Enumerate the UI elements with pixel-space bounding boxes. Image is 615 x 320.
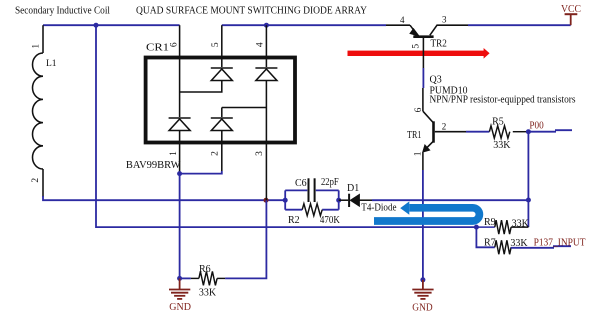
wire: coil pin2 to C6/R2 node: [43, 196, 285, 200]
svg-text:5: 5: [211, 42, 221, 47]
CR1 pin 5 stub (top): [221, 25, 223, 57]
svg-text:6: 6: [170, 42, 180, 47]
svg-text:R9: R9: [484, 217, 496, 228]
svg-text:CR1: CR1: [146, 43, 169, 54]
blue arrow annotation (U-turn): [374, 208, 479, 221]
node junction dot pin1/pin2: [177, 171, 182, 176]
CR1 internal: connector from top-right anode column to bottom-middle cathode: [222, 107, 267, 109]
svg-text:33K: 33K: [512, 218, 530, 229]
wire: D1 anode to P00 column: [372, 199, 528, 201]
wire: TR2 base to TR1 collector: [422, 68, 424, 88]
wire: CR1 pin1 column down to ground node: [179, 174, 181, 279]
power symbol VCC: [565, 14, 578, 25]
TR1 base lead: [435, 131, 466, 133]
capacitor C6 / resistor R2 parallel network nodes: [283, 198, 288, 203]
TR1 collector stub: [422, 88, 424, 111]
svg-text:R7: R7: [484, 237, 496, 248]
svg-text:Secondary Inductive Coil: Secondary Inductive Coil: [15, 6, 110, 17]
resistor R5: [489, 126, 528, 139]
svg-text:NPN/PNP resistor-equipped tran: NPN/PNP resistor-equipped transistors: [430, 95, 576, 106]
TR1 bar: [432, 121, 435, 142]
CR1 internal: pin6 vertical to diode D-A cathode, branch to D-B anode: [180, 58, 222, 118]
transistor TR2 (PNP, Q3a): [386, 25, 468, 68]
svg-text:6: 6: [414, 107, 424, 112]
resistor R9: [476, 220, 528, 234]
wire: R2 branch rails: [285, 209, 339, 211]
node junction dot D1 wire / P00 column: [526, 198, 531, 203]
svg-text:5: 5: [411, 44, 421, 49]
wire: cap branch rails: [285, 189, 339, 191]
node junction dot P00: [526, 129, 531, 134]
svg-text:D1: D1: [347, 183, 359, 194]
capacitor C6 plates: [309, 178, 315, 202]
svg-text:1: 1: [169, 151, 179, 156]
CR1 pin 6 stub (top): [179, 25, 181, 57]
svg-text:L1: L1: [46, 59, 57, 69]
svg-text:R6: R6: [199, 264, 211, 275]
svg-text:33K: 33K: [199, 288, 217, 299]
CR1 internal diode top-middle (anode to pin6 branch, cathode to pin5): [211, 58, 233, 81]
node junction dot R9/R7 tap: [474, 225, 479, 230]
node junction dot at CR1 pin4: [264, 23, 269, 28]
CR1 pin 4 stub (top): [265, 25, 267, 57]
svg-text:GND: GND: [169, 302, 191, 313]
svg-text:BAV99BRW: BAV99BRW: [126, 160, 181, 171]
diode array CR1 package box: [146, 58, 295, 143]
CR1 pin 2 stub (bottom): [221, 143, 223, 172]
wire: TR1 base to R5: [466, 131, 489, 133]
CR1 pin 1 stub (bottom): [179, 143, 181, 174]
svg-text:T4-Diode: T4-Diode: [361, 202, 397, 213]
resistor R2 zigzag: [302, 204, 322, 216]
TR2 base stub: [422, 38, 424, 68]
svg-text:Q3: Q3: [430, 74, 442, 85]
svg-text:3: 3: [255, 151, 265, 156]
ground symbol (middle): [412, 280, 433, 299]
svg-text:QUAD SURFACE MOUNT SWITCHING D: QUAD SURFACE MOUNT SWITCHING DIODE ARRAY: [136, 6, 367, 17]
transistor TR1 (NPN, Q3b): [423, 88, 467, 170]
svg-text:TR2: TR2: [431, 39, 447, 50]
svg-text:1: 1: [414, 151, 424, 156]
wire: network left vertical: [284, 190, 286, 209]
wire: R7 to P137_INPUT net: [511, 246, 571, 248]
svg-text:VCC: VCC: [561, 4, 581, 15]
svg-text:P00: P00: [529, 121, 543, 132]
svg-text:GND: GND: [412, 302, 433, 313]
svg-text:P137_INPUT: P137_INPUT: [534, 237, 586, 248]
svg-text:R5: R5: [492, 116, 504, 127]
wire: pin3 column down to R6: [225, 200, 266, 278]
wire: TR2 collector to VCC: [468, 24, 571, 26]
wire: P00 net to right: [528, 130, 572, 132]
node junction dot on top-left wire: [94, 23, 99, 28]
diode D1: [339, 194, 372, 207]
wire: tap down to R7: [476, 227, 494, 247]
node junction dot at left ground: [177, 276, 182, 281]
wire: CR1 pin2 to pin1 column: [180, 171, 222, 174]
ground symbol (left): [169, 278, 190, 299]
TR1 emitter diagonal with arrow: [425, 142, 434, 151]
CR1 pin 3 stub (bottom): [265, 143, 267, 201]
wire: TR1 emitter down to ground: [422, 170, 424, 280]
wire top-right: CR1 pin5 / pin4 to TR2 emitter: [222, 24, 386, 26]
TR2 pin 4 emitter lead: [386, 24, 410, 26]
TR1 emitter stub: [422, 152, 424, 170]
CR1 internal diode top-right (cathode to pin4): [255, 58, 277, 143]
svg-text:2: 2: [211, 151, 221, 156]
resistor R6: [180, 277, 191, 279]
svg-text:1: 1: [32, 44, 42, 49]
svg-text:2: 2: [442, 122, 447, 132]
resistor R7: [495, 240, 511, 254]
CR1 internal diode bottom-left (cathode to pin6, anode to pin1): [169, 118, 191, 143]
wire top-left: coil pin1 to CR1 pin6: [43, 24, 180, 26]
CR1 internal diode bottom-middle (cathode to connector, anode to pin2): [211, 108, 233, 143]
wire: left vertical from top junction down and long horizontal to R9: [96, 25, 476, 227]
red arrow annotation: [348, 48, 490, 59]
node junction dot at middle ground: [420, 277, 425, 282]
svg-text:R2: R2: [288, 215, 300, 226]
TR2 bar: [413, 35, 433, 38]
TR2 pin 3 collector lead: [430, 25, 468, 35]
svg-text:4: 4: [400, 15, 405, 25]
svg-text:4: 4: [255, 42, 265, 47]
wire: P00 column down to R9: [527, 132, 529, 227]
svg-text:2: 2: [31, 178, 41, 183]
svg-text:33K: 33K: [493, 140, 511, 151]
wire: network right vertical: [338, 190, 340, 209]
svg-text:TR1: TR1: [407, 130, 422, 141]
node junction dot (red) at pin3 column on coil wire: [264, 198, 269, 203]
svg-text:470K: 470K: [320, 215, 341, 226]
svg-text:22pF: 22pF: [321, 177, 339, 188]
svg-text:C6: C6: [295, 178, 307, 189]
inductor L1: [33, 25, 44, 197]
svg-text:3: 3: [442, 15, 447, 25]
